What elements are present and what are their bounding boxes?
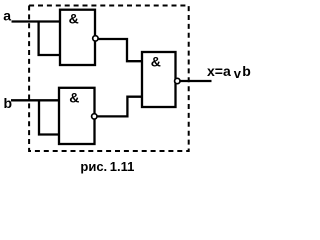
wire: a branch to U1 second input xyxy=(39,22,61,56)
wire: input a xyxy=(12,20,61,22)
svg-text:a: a xyxy=(3,8,11,24)
NAND gate U3 (output) box xyxy=(142,52,176,107)
svg-text:&: & xyxy=(69,90,79,106)
dashed enclosure border xyxy=(29,6,189,152)
svg-text:&: & xyxy=(69,10,79,26)
wire: U1 output to U3 upper input xyxy=(95,39,142,61)
wire: U3 output xyxy=(176,80,212,82)
wire: input b xyxy=(11,99,60,101)
NAND gate U2 (bottom) box xyxy=(59,88,95,144)
svg-text:&: & xyxy=(151,53,161,69)
svg-text:x=avb: x=avb xyxy=(207,63,251,81)
U1 inversion bubble xyxy=(93,36,98,41)
wire: b branch to U2 second input xyxy=(39,100,60,134)
NAND gate U1 (top) box xyxy=(60,10,95,65)
svg-text:рис. 1.11: рис. 1.11 xyxy=(80,159,134,174)
svg-text:b: b xyxy=(4,95,13,111)
U2 inversion bubble xyxy=(92,114,97,119)
U3 inversion bubble xyxy=(175,78,180,83)
wire: U2 output to U3 lower input xyxy=(94,97,142,117)
